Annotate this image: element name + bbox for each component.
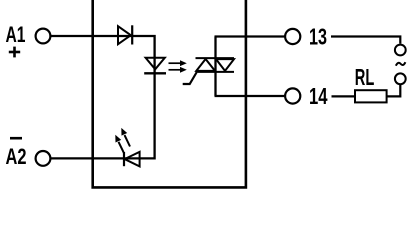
triac U1 — [196, 58, 235, 72]
wire input loop A1 to A2 — [51, 36, 155, 158]
wire triac to terminal 14 — [215, 95, 285, 97]
svg-text:A1: A1 — [6, 22, 26, 47]
triac vertical branch wire — [214, 37, 216, 97]
label + — [9, 47, 20, 58]
label minus — [10, 137, 22, 140]
triac gate — [183, 73, 197, 85]
LED emission arrow 1 — [121, 128, 130, 147]
wire triac to terminal 13 — [215, 35, 285, 37]
terminal 13 — [285, 29, 300, 44]
indicator LED D3 — [124, 152, 140, 167]
AC source contact top — [395, 45, 406, 56]
resistor RL — [355, 90, 387, 102]
terminal 14 — [285, 88, 300, 103]
svg-text:14: 14 — [309, 83, 328, 109]
module box outline — [93, 0, 246, 187]
terminal A2 — [36, 151, 51, 166]
svg-text:RL: RL — [355, 64, 375, 90]
terminal A1 — [36, 29, 51, 44]
diode D1 — [118, 25, 132, 44]
AC source contact bottom — [395, 73, 406, 84]
wire AC source to resistor — [387, 85, 401, 97]
svg-text:A2: A2 — [6, 144, 27, 169]
svg-text:13: 13 — [309, 24, 327, 50]
AC source tilde — [396, 62, 406, 65]
opto LED D2 — [144, 58, 166, 74]
LED emission arrow 2 — [115, 135, 124, 153]
wire 13 to AC source — [331, 37, 400, 44]
wire resistor to terminal 14 — [332, 95, 356, 97]
opto emission arrow 2 — [169, 67, 187, 73]
opto emission arrow 1 — [169, 60, 187, 66]
